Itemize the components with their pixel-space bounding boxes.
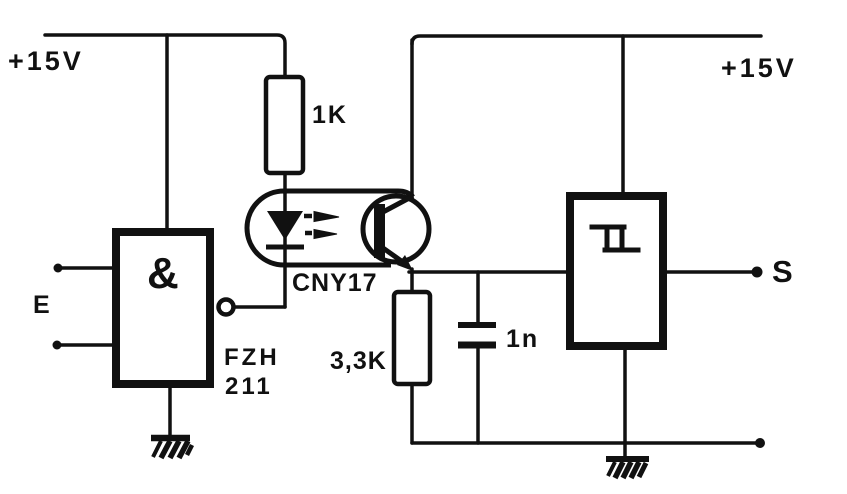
svg-text:211: 211	[225, 373, 273, 400]
ground under schmitt trigger	[606, 459, 649, 478]
transistor Q1 emitter arrowhead	[397, 255, 413, 271]
svg-text:3,3K: 3,3K	[330, 347, 387, 375]
wire right +15V rail	[412, 36, 761, 44]
node input 1 dot	[54, 264, 63, 273]
wire NAND gate ground drop	[168, 388, 172, 436]
svg-text:+15V: +15V	[8, 46, 84, 76]
capacitor C1 bottom plate	[458, 342, 496, 349]
wire 3,3K to bottom rail	[410, 384, 414, 443]
node bottom rail end dot	[755, 438, 765, 448]
svg-text:S: S	[772, 254, 793, 289]
node output dot	[752, 267, 763, 278]
wire 1K to optocoupler	[283, 173, 287, 193]
wire schmitt top drop	[621, 36, 625, 193]
svg-text:1n: 1n	[506, 325, 539, 353]
wire left +15V rail	[45, 35, 285, 77]
transistor Q1 phototransistor circle	[363, 196, 429, 262]
ground under NAND gate	[151, 438, 192, 458]
transistor Q1 emitter stroke	[383, 248, 407, 265]
LED cathode bar	[266, 245, 304, 250]
svg-text:+15V: +15V	[721, 53, 797, 83]
wire NAND output to LED cathode	[234, 305, 285, 309]
transistor Q1 base bar	[374, 204, 385, 258]
resistor R1 1K	[266, 77, 303, 173]
optocoupler U1 CNY17 body	[247, 191, 413, 265]
schmitt trigger U3 body	[570, 196, 663, 346]
light arrow 1	[304, 212, 339, 222]
capacitor C1 top plate	[458, 322, 496, 328]
NAND gate U2 body	[116, 232, 210, 384]
svg-text:FZH: FZH	[224, 344, 280, 371]
wire NAND input 2	[57, 343, 112, 347]
wire schmitt bottom drop	[623, 350, 627, 458]
wire LED vertical	[283, 193, 287, 307]
svg-text:E: E	[33, 291, 50, 319]
wire emitter node to schmitt input	[409, 270, 566, 274]
light arrow 2	[305, 230, 337, 239]
wire NAND input 1	[58, 266, 112, 270]
diode D1 LED	[267, 211, 303, 240]
NAND inverter bubble	[219, 300, 234, 315]
wire capacitor top	[476, 272, 480, 322]
resistor R2 3,3K	[394, 292, 430, 384]
wire capacitor bottom	[476, 348, 480, 443]
wire bottom rail	[412, 441, 758, 445]
wire schmitt output	[667, 270, 753, 274]
transistor Q1 collector stroke	[383, 196, 413, 212]
hysteresis symbol	[592, 227, 638, 250]
wire branch to NAND gate top	[165, 35, 169, 230]
wire collector drop	[410, 40, 414, 198]
wire emitter node down	[410, 269, 414, 292]
svg-text:&: &	[147, 249, 179, 298]
svg-text:1K: 1K	[312, 101, 348, 129]
node input 2 dot	[53, 341, 62, 350]
svg-text:CNY17: CNY17	[292, 269, 378, 297]
